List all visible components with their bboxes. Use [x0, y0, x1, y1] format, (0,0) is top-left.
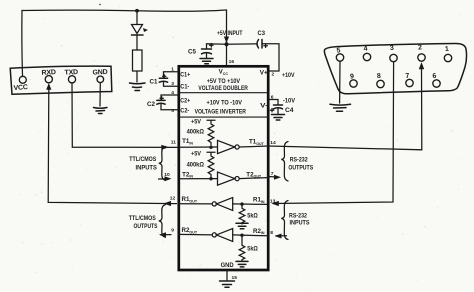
svg-text:C4: C4: [285, 107, 294, 114]
svg-text:C3: C3: [258, 30, 266, 37]
svg-text:TXD: TXD: [64, 69, 78, 77]
svg-text:GND: GND: [92, 69, 107, 77]
svg-text:C1: C1: [150, 79, 159, 86]
svg-text:RXD: RXD: [41, 69, 56, 77]
svg-text:400kΩ: 400kΩ: [187, 161, 204, 168]
svg-text:8: 8: [270, 230, 273, 236]
svg-text:4: 4: [171, 90, 174, 96]
svg-text:6: 6: [271, 94, 274, 100]
svg-text:C2-: C2-: [180, 108, 189, 115]
svg-text:1: 1: [171, 67, 174, 73]
svg-text:OUTPUTS: OUTPUTS: [134, 223, 158, 230]
svg-text:14: 14: [270, 140, 276, 146]
svg-text:V+: V+: [260, 70, 268, 77]
svg-text:12: 12: [170, 196, 176, 202]
svg-text:RS-232: RS-232: [290, 156, 308, 163]
svg-text:+10V TO -10V: +10V TO -10V: [207, 99, 243, 106]
svg-text:5kΩ: 5kΩ: [247, 212, 258, 219]
svg-text:+5V: +5V: [191, 119, 202, 126]
svg-text:GND: GND: [221, 262, 235, 269]
svg-text:7: 7: [271, 171, 274, 177]
svg-text:400kΩ: 400kΩ: [187, 129, 204, 136]
svg-text:5kΩ: 5kΩ: [247, 246, 258, 253]
svg-text:-10V: -10V: [283, 97, 296, 104]
svg-text:OUTPUTS: OUTPUTS: [288, 164, 313, 171]
svg-text:RS-232: RS-232: [289, 212, 307, 219]
svg-text:C1-: C1-: [180, 83, 189, 90]
svg-text:C2+: C2+: [180, 97, 190, 104]
svg-text:INPUTS: INPUTS: [136, 165, 157, 172]
svg-text:TTL/CMOS: TTL/CMOS: [129, 156, 156, 163]
svg-text:16: 16: [229, 59, 235, 65]
svg-text:VOLTAGE DOUBLER: VOLTAGE DOUBLER: [198, 85, 248, 92]
svg-text:15: 15: [232, 275, 238, 281]
svg-text:VCC: VCC: [13, 84, 28, 92]
svg-text:5: 5: [171, 108, 174, 114]
svg-text:9: 9: [171, 227, 174, 233]
svg-text:2: 2: [272, 71, 275, 77]
svg-text:TTL/CMOS: TTL/CMOS: [129, 215, 156, 222]
svg-text:INPUTS: INPUTS: [290, 220, 310, 227]
svg-text:C5: C5: [188, 48, 197, 55]
svg-text:C1+: C1+: [180, 72, 190, 79]
svg-text:+5V: +5V: [191, 150, 202, 157]
svg-text:3: 3: [171, 81, 174, 87]
svg-text:VOLTAGE INVERTER: VOLTAGE INVERTER: [195, 109, 247, 116]
svg-text:C2: C2: [147, 101, 156, 108]
svg-text:V-: V-: [260, 102, 268, 109]
svg-text:+10V: +10V: [282, 72, 295, 79]
svg-text:11: 11: [171, 139, 176, 145]
